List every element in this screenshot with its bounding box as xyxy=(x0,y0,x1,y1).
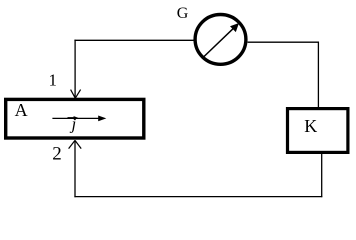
galvanometer G (circle) xyxy=(195,15,246,65)
wire: bottom-right vertical segment up to switch K xyxy=(321,153,323,197)
wire: top-left horizontal segment xyxy=(74,39,193,41)
wire: left vertical segment down to node 1 xyxy=(74,40,76,98)
wire: top-right horizontal segment to galvanometer xyxy=(248,41,319,43)
arrowhead out of node 2 (pointing up) xyxy=(69,140,82,148)
galvanometer needle arrow xyxy=(203,23,239,58)
svg-text:1: 1 xyxy=(49,70,58,89)
wire: top-right vertical segment from switch K xyxy=(317,42,319,108)
svg-text:2: 2 xyxy=(52,143,62,164)
svg-text:K: K xyxy=(304,116,317,136)
svg-text:A: A xyxy=(15,100,28,120)
conductor A (thick rectangle) xyxy=(6,99,144,138)
svg-text:j: j xyxy=(70,114,77,133)
wire: bottom-left vertical segment from node 2 xyxy=(74,140,76,197)
arrowhead into node 1 (pointing down) xyxy=(71,90,81,99)
switch K (thick rectangle) xyxy=(288,109,348,153)
vector arrow over j xyxy=(68,116,79,119)
svg-text:G: G xyxy=(177,5,189,22)
wire: bottom horizontal segment xyxy=(74,196,322,198)
current density arrow j xyxy=(52,116,106,122)
